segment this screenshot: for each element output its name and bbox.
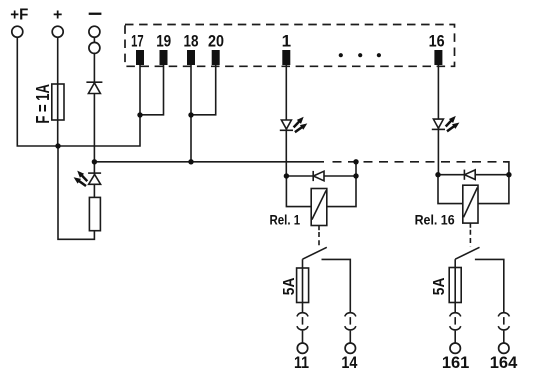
svg-text:5A: 5A	[431, 277, 448, 295]
terminal pad 16	[434, 50, 442, 65]
fuse F = 1A	[52, 84, 64, 120]
wire fuse1 to terminal 11	[302, 331, 304, 344]
svg-text:F = 1A: F = 1A	[33, 84, 53, 124]
wire relay16 loop right	[478, 175, 509, 204]
plug contact 164	[498, 313, 509, 330]
junction relay16 coil right	[506, 172, 511, 177]
wire LED/resistor loop to fused rail	[58, 146, 94, 239]
svg-text:5A: 5A	[281, 277, 298, 295]
relay coil K1	[311, 189, 327, 226]
wire +F down, rail to terminal 17	[17, 37, 140, 146]
flyback diode relay16	[464, 170, 475, 180]
diode on minus line	[86, 82, 102, 93]
fuse 5A relay16	[449, 268, 461, 303]
terminal circle 11	[297, 343, 307, 353]
relay coil K16	[463, 185, 478, 223]
wire fixed contact1 to terminal 14	[322, 259, 351, 312]
wire minus rail solid	[94, 161, 324, 163]
wire 19 to 17 link	[140, 65, 164, 115]
wire plug to terminal 164 circle	[503, 331, 505, 344]
junction relay1 coil left	[284, 173, 289, 178]
switch blade S1	[303, 247, 327, 259]
junction minus rail / LED branch	[92, 159, 97, 164]
terminal circle +F	[12, 26, 23, 37]
wire minus rail dashed continuation	[333, 161, 509, 163]
wire fixed contact16 to terminal 164	[475, 259, 504, 312]
power LED	[88, 173, 101, 184]
wire plug to terminal 14 circle	[349, 331, 351, 344]
wire relay1 loop right to coil	[327, 176, 356, 207]
wire coil1 stub	[318, 226, 320, 231]
LED power arrows	[74, 171, 88, 186]
LED1 status	[280, 120, 293, 130]
ellipsis dots	[339, 53, 381, 57]
module outline (dashed box)	[125, 25, 455, 67]
terminal pad 18	[187, 50, 195, 65]
wire blade1 to fuse 5A	[302, 259, 304, 312]
LED16 status	[432, 119, 445, 129]
plug contact 14	[345, 313, 356, 330]
plug contact 11	[297, 313, 308, 330]
terminal pad 20	[212, 50, 220, 65]
wire relay1 coil top across (flyback diode wire)	[286, 175, 356, 177]
svg-text:20: 20	[208, 32, 224, 51]
junction relay1 coil right	[353, 173, 358, 178]
svg-text:17: 17	[131, 32, 144, 51]
wire terminal 1 down through LED1	[285, 65, 287, 176]
svg-text:Rel. 16: Rel. 16	[415, 212, 455, 228]
mechanical link relay1 (dashed)	[318, 232, 320, 248]
terminal pad 1	[282, 50, 290, 65]
plug contact 161	[450, 313, 461, 330]
svg-text:1: 1	[282, 32, 291, 51]
wire blade16 to fuse 5A	[454, 259, 456, 312]
terminal circle +	[52, 26, 63, 37]
wire relay16 loop left	[438, 175, 463, 204]
minus sign label	[89, 13, 102, 15]
svg-text:11: 11	[294, 353, 309, 372]
wire coil16 stub	[469, 223, 471, 228]
svg-text:+: +	[53, 6, 62, 23]
resistor	[89, 197, 100, 230]
terminal circle 164	[499, 343, 509, 353]
svg-text:16: 16	[429, 32, 445, 51]
wire relay16 right branch from dashed rail	[505, 162, 509, 175]
LED1 arrows	[294, 117, 308, 132]
junction fused rail / LED loop	[55, 143, 60, 148]
terminal circles - (double)	[89, 26, 100, 53]
wire + through fuse down to rail	[57, 37, 59, 146]
mechanical link relay16 (dashed)	[469, 230, 471, 247]
wire terminal 16 down through LED16	[437, 65, 439, 175]
terminal circle 14	[345, 343, 355, 353]
svg-text:19: 19	[156, 32, 171, 51]
wire 18 down to minus rail	[190, 65, 192, 162]
LED16 arrows	[446, 116, 460, 131]
wire relay1 loop left to coil	[286, 176, 311, 207]
svg-text:164: 164	[490, 353, 518, 372]
wire fuse16 to terminal 161	[454, 331, 456, 344]
svg-text:161: 161	[442, 353, 470, 372]
wire - line down to minus rail	[93, 37, 95, 162]
wire relay16 coil top across	[438, 174, 509, 176]
junction minus rail / relay1	[353, 159, 358, 164]
junction relay16 coil left	[435, 172, 440, 177]
svg-text:14: 14	[341, 353, 357, 372]
junction 18/20	[188, 112, 193, 117]
junction minus rail / 18	[188, 159, 193, 164]
switch blade S16	[455, 247, 479, 259]
svg-text:Rel. 1: Rel. 1	[270, 212, 301, 228]
svg-text:18: 18	[184, 32, 199, 51]
terminal pad 17	[136, 50, 144, 65]
fuse 5A relay1	[297, 268, 309, 303]
terminal circle 161	[450, 343, 460, 353]
junction 17/19	[137, 112, 142, 117]
wire 20 to 18 link	[191, 65, 216, 115]
svg-text:+F: +F	[10, 6, 28, 23]
flyback diode relay1	[313, 171, 324, 181]
wire relay1 right branch to minus rail	[355, 162, 357, 176]
terminal pad 19	[160, 50, 168, 65]
